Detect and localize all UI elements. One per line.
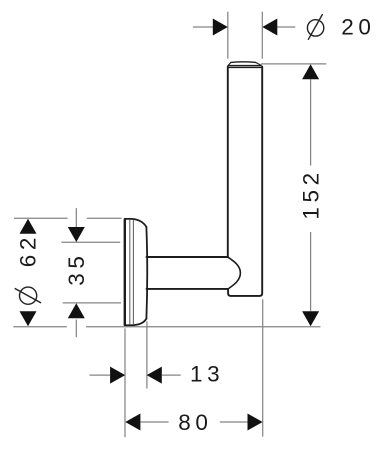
dim 20 left tail: [193, 26, 213, 28]
arrowhead dim 20 right: [262, 19, 277, 36]
wall plate inner contour line 1: [129, 220, 131, 324]
wall plate top edge: [125, 219, 146, 227]
extension line tube left (dim 20): [227, 12, 229, 59]
dim 13 right tail: [162, 374, 181, 376]
dim 80 line right segment: [220, 421, 248, 423]
svg-text:62: 62: [15, 233, 40, 267]
arrowhead dim 152 bottom: [302, 311, 319, 326]
extension line tube right (dim 20): [261, 12, 263, 59]
extension line 152/62 bottom: [13, 326, 320, 328]
wall plate bottom edge: [125, 319, 146, 326]
diameter symbol of label 62: [15, 287, 41, 304]
tube top cap base line: [228, 66, 262, 68]
extension line 62 top: [14, 217, 122, 219]
dim 80 line left segment: [141, 421, 169, 423]
dim 20 right tail: [277, 26, 295, 28]
dim 152 line lower: [310, 232, 312, 311]
arm top edge: [147, 256, 228, 258]
arrowhead dim 35 bottom pointing up: [68, 303, 85, 318]
arm bottom edge: [147, 288, 229, 290]
arrowhead dim 13 left pointing right: [110, 367, 125, 384]
wall plate inner contour line 2: [132, 221, 134, 325]
extension line 13 right: [146, 321, 148, 388]
arm rounded end: [228, 257, 241, 289]
arrowhead dim 152 top: [302, 64, 319, 79]
arrowhead dim 35 top pointing down: [68, 227, 85, 242]
arrowhead dim 62 bottom: [20, 311, 37, 326]
wall plate front face: [145, 227, 148, 319]
extension line 13/80 left: [124, 328, 126, 437]
wall plate left edge: [124, 219, 126, 325]
extension line 35 top: [61, 241, 120, 243]
tube body outline: [228, 67, 262, 296]
arrowhead dim 62 top: [20, 219, 37, 234]
tube top cap chamfer edges: [228, 62, 261, 65]
svg-text:152: 152: [299, 168, 324, 219]
dim 13 left tail: [90, 374, 111, 376]
dim 152 line upper: [310, 79, 312, 165]
svg-text:35: 35: [64, 251, 89, 285]
arrowhead dim 80 right pointing right: [248, 414, 263, 431]
tube top cap rim line: [228, 64, 261, 66]
tube top cap face: [231, 61, 256, 64]
arrowhead dim 80 left pointing left: [125, 414, 140, 431]
arrowhead dim 20 left: [213, 19, 228, 36]
svg-text:13: 13: [190, 361, 224, 386]
dim 35 lower overshoot: [75, 320, 77, 338]
extension line 80 right: [262, 299, 264, 436]
extension line 152 top: [261, 63, 326, 65]
arrowhead dim 13 right pointing left: [147, 367, 162, 384]
dim 35 upper overshoot: [75, 208, 77, 227]
extension line 35 bottom: [63, 302, 121, 304]
svg-text:20: 20: [341, 14, 375, 39]
tube left edge: [227, 67, 229, 257]
svg-text:80: 80: [178, 410, 212, 435]
diameter symbol of label 20: [307, 14, 323, 40]
